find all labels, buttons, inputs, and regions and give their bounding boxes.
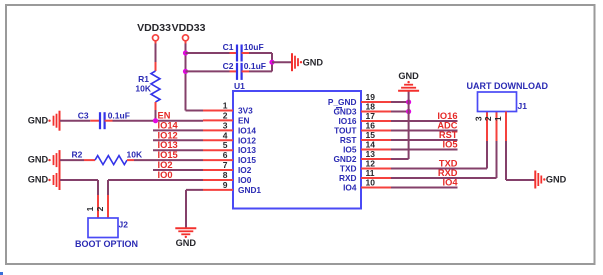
wire C1 right to gnd rail [242,53,273,71]
pin 19 P_GND [328,92,391,107]
wire gnd to R2 [60,159,84,161]
svg-text:9: 9 [223,180,228,190]
label BOOT OPTION [75,239,138,249]
svg-text:15: 15 [366,130,376,140]
wire rail to ground [272,61,292,63]
pin 2 EN [203,110,250,125]
pin 17 IO16 [339,111,392,126]
svg-text:IO16: IO16 [339,116,357,126]
resistor R2 10K [72,150,143,165]
net label IO14 [158,120,179,130]
ground GND (GND1) [175,228,196,248]
pin 5 IO13 [203,140,256,155]
wire IO5 net [391,149,458,151]
pin 10 IO4 [343,178,391,193]
wire gnd rail down to GND2 pin [391,91,409,159]
svg-text:IO5: IO5 [343,145,357,155]
wire VDD33 to R1 [155,44,157,63]
net label EN [158,111,171,121]
net label IO5 [443,140,458,150]
net label IO0 [158,170,173,180]
net label IO16 [437,111,457,121]
svg-text:GND: GND [546,175,567,185]
svg-text:4: 4 [223,130,228,140]
svg-text:GND2: GND2 [333,154,356,164]
wire ADC net [391,130,458,132]
svg-text:BOOT OPTION: BOOT OPTION [75,239,138,249]
svg-text:TXD: TXD [439,159,458,169]
svg-text:TXD: TXD [340,164,357,174]
wire VDD33 down to C1/C2 taps and 3V3 pin [186,44,204,111]
pin 18 GND3 [333,102,391,117]
net label IO4 [443,178,459,188]
svg-text:2: 2 [223,110,228,120]
wire IO16 net [391,120,458,122]
ground GND (boot) [28,170,60,190]
svg-text:VDD33: VDD33 [172,22,206,34]
pin 7 IO2 [203,160,252,175]
svg-text:IO13: IO13 [238,145,256,155]
capacitor C3 0.1uF [78,111,130,130]
svg-text:GND: GND [303,57,324,67]
svg-text:VDD33: VDD33 [137,22,171,34]
ground GND (C3) [28,111,60,131]
pin 9 GND1 [203,180,261,195]
svg-text:2: 2 [95,206,105,211]
wire C3 to EN pin [105,120,204,122]
svg-text:GND1: GND1 [238,185,261,195]
net label RXD [438,168,458,178]
capacitor C2 0.1uF [223,61,266,80]
wire J1 pin 1 to ground [506,112,535,181]
svg-text:J1: J1 [518,101,528,111]
svg-text:C3: C3 [78,111,89,121]
connector J1 [478,92,528,112]
svg-text:EN: EN [158,111,171,121]
svg-text:P_GND: P_GND [328,97,357,107]
pin number 2 (J2) [95,206,105,211]
svg-text:1: 1 [85,206,95,211]
pin 15 RST [340,130,391,145]
svg-text:IO0: IO0 [238,175,252,185]
svg-text:IO2: IO2 [238,165,252,175]
svg-text:RXD: RXD [339,173,357,183]
pin number 2 (J1) [483,116,493,121]
wire to C2 [186,70,238,72]
pin 12 TXD [340,159,391,174]
svg-text:GND: GND [176,238,197,248]
power flag VDD33 (left) [137,22,171,44]
wire P_GND to gnd rail [391,101,409,103]
svg-text:10K: 10K [135,84,151,94]
pin number 1 (J2) [85,206,95,211]
svg-text:2: 2 [483,116,493,121]
svg-text:18: 18 [366,102,376,112]
svg-text:RXD: RXD [438,168,458,178]
svg-text:J2: J2 [119,220,129,230]
svg-text:IO14: IO14 [238,125,256,135]
wire gnd to C3 [60,120,100,122]
power flag VDD33 (right) [172,22,206,44]
IC U1 body [233,81,361,209]
svg-text:8: 8 [223,170,228,180]
pin 16 TOUT [334,121,391,136]
wire J2 pin 2 to IO0 pin [108,180,203,218]
wire R2 to IO15 pin [134,159,203,161]
svg-text:IO14: IO14 [158,120,179,130]
svg-text:ADC: ADC [437,121,457,131]
wire R1 to EN net [155,110,157,121]
svg-text:12: 12 [366,159,376,169]
svg-text:IO12: IO12 [158,130,178,140]
pin 14 IO5 [343,140,391,155]
svg-text:RST: RST [340,135,357,145]
svg-text:10uF: 10uF [244,42,264,52]
svg-text:IO5: IO5 [443,140,458,150]
svg-text:GND: GND [28,155,49,165]
svg-text:7: 7 [223,160,228,170]
svg-text:3: 3 [223,120,228,130]
wire to C1 [186,52,238,54]
svg-text:C2: C2 [223,61,234,71]
svg-text:GND: GND [398,71,419,81]
pin 8 IO0 [203,170,252,185]
svg-text:19: 19 [366,92,376,102]
svg-text:IO13: IO13 [158,140,178,150]
wire IO4 net [391,187,458,189]
svg-text:10K: 10K [127,150,143,160]
svg-text:5: 5 [223,140,228,150]
svg-text:1: 1 [223,101,228,111]
pin 13 GND2 [333,149,391,164]
wire RST net [391,139,458,141]
wire GND3 to gnd rail [391,111,409,113]
svg-text:IO15: IO15 [238,155,256,165]
svg-text:EN: EN [238,115,250,125]
pin 1 3V3 [203,101,253,116]
pin number 3 (J1) [473,116,483,121]
net label ADC [437,121,457,131]
svg-text:1: 1 [493,116,503,121]
wire IO13 net [153,149,203,151]
wire gnd to J2 pin 1 [60,180,98,218]
net label IO13 [158,140,178,150]
svg-text:C1: C1 [223,42,234,52]
connector J2 [88,218,128,238]
svg-text:U1: U1 [234,81,245,91]
svg-text:13: 13 [366,149,376,159]
svg-text:16: 16 [366,121,376,131]
junction P_GND [406,99,411,104]
wire RXD to J1 pin 2 [391,112,497,179]
label UART DOWNLOAD [467,81,549,91]
svg-text:RST: RST [439,130,458,140]
svg-text:3V3: 3V3 [238,106,253,116]
svg-text:IO12: IO12 [238,135,256,145]
junction EN/R1 [153,118,158,123]
net label IO12 [158,130,178,140]
wire GND1 pin to ground [186,190,203,228]
svg-text:TOUT: TOUT [334,126,356,136]
svg-text:10: 10 [366,178,376,188]
junction at C1 tap [183,50,188,55]
wire IO2 net [153,169,203,171]
svg-text:IO2: IO2 [158,160,173,170]
net label TXD [439,159,458,169]
junction at C2 tap [183,69,188,74]
svg-text:IO0: IO0 [158,170,173,180]
svg-text:UART DOWNLOAD: UART DOWNLOAD [467,81,549,91]
wire IO14 net [153,129,203,131]
svg-text:0.1uF: 0.1uF [244,61,266,71]
junction on cap gnd rail [269,60,274,65]
wire TXD to J1 pin 3 [391,112,487,169]
ground GND (R2) [28,150,60,170]
pin 3 IO14 [203,120,256,135]
pin 4 IO12 [203,130,256,145]
svg-text:R2: R2 [72,150,83,160]
ground GND (caps) [292,53,323,71]
pin number 1 (J1) [493,116,503,121]
wire IO12 net [153,139,203,141]
svg-text:IO16: IO16 [437,111,457,121]
svg-text:GND: GND [28,175,49,185]
pin 6 IO15 [203,150,256,165]
net label RST [439,130,458,140]
wire C2 right to gnd rail [242,70,273,72]
svg-text:6: 6 [223,150,228,160]
junction GND3 [406,109,411,114]
svg-text:IO15: IO15 [158,150,178,160]
ground GND (uart) [535,171,566,189]
svg-text:0.1uF: 0.1uF [108,111,130,121]
svg-text:11: 11 [366,168,375,178]
net label IO15 [158,150,178,160]
svg-text:IO4: IO4 [343,183,357,193]
ground GND (top right) [398,71,419,91]
net label IO2 [158,160,173,170]
capacitor C1 10uF [223,42,264,62]
resistor R1 10K [135,62,160,110]
pin 11 RXD [339,168,391,183]
svg-text:IO4: IO4 [443,178,459,188]
svg-text:GND: GND [28,115,49,125]
svg-text:14: 14 [366,140,376,150]
svg-text:R1: R1 [138,74,149,84]
svg-text:17: 17 [366,111,376,121]
svg-text:3: 3 [473,116,483,121]
